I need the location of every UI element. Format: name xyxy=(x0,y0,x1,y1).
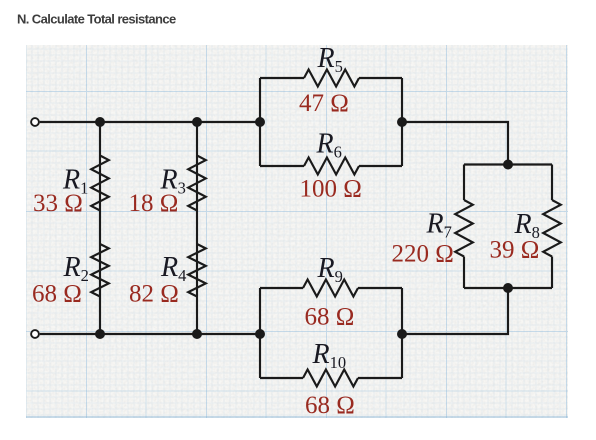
svg-text:82 Ω: 82 Ω xyxy=(129,281,179,308)
wire: bottom rail xyxy=(40,333,260,335)
resistor R8 xyxy=(543,200,561,257)
wire: R10 leads xyxy=(260,377,402,379)
junction dot 4 at (402,122) xyxy=(397,117,407,127)
svg-text:47 Ω: 47 Ω xyxy=(299,90,349,117)
junction dot 5 at (508,164.5) xyxy=(503,160,513,170)
wire: R8 leads xyxy=(551,165,553,289)
junction dot 10 at (402,334) xyxy=(397,329,407,339)
wire: R9/R10 box right vertical xyxy=(401,288,403,378)
resistor R2 xyxy=(91,244,109,297)
resistor R4 xyxy=(188,244,206,297)
resistor R6 xyxy=(304,158,359,175)
junction dot 8 at (197,334) xyxy=(192,329,202,339)
svg-text:18 Ω: 18 Ω xyxy=(129,190,179,217)
terminal: top-left input xyxy=(31,118,39,126)
resistor R5 xyxy=(304,70,359,87)
junction dot 7 at (100,334) xyxy=(95,329,105,339)
wire: R5 top leads xyxy=(260,77,402,79)
resistor R10 xyxy=(303,370,358,387)
wire: R5/R6 box left vertical xyxy=(259,78,261,166)
junction dot 1 at (100,122) xyxy=(95,117,105,127)
wire: R9/R10 box left vertical xyxy=(259,288,261,378)
svg-text:100 Ω: 100 Ω xyxy=(300,176,362,203)
wire: R7/R8 box to bottom rail xyxy=(402,288,508,334)
wire: R7/R8 box top xyxy=(464,163,552,165)
junction dot 9 at (260,334) xyxy=(255,329,265,339)
wire: R7 leads xyxy=(463,165,465,289)
resistor R9 xyxy=(303,280,358,297)
junction dot 3 at (260,122) xyxy=(255,117,265,127)
terminal: bottom-left input xyxy=(31,330,39,338)
svg-text:N. Calculate Total resistance: N. Calculate Total resistance xyxy=(17,12,176,27)
resistor R1 xyxy=(91,156,109,211)
paper grid background xyxy=(26,45,568,418)
svg-text:68 Ω: 68 Ω xyxy=(305,304,355,331)
wire: top rail to R7/R8 box xyxy=(402,122,508,165)
wire: R6 bottom leads xyxy=(260,165,402,167)
wire: R7/R8 box bottom xyxy=(464,287,552,289)
junction dot 2 at (197,122) xyxy=(192,117,202,127)
wire: top rail xyxy=(40,121,260,123)
wire: branch R3/R4 vertical xyxy=(196,122,198,334)
svg-text:39 Ω: 39 Ω xyxy=(490,237,540,264)
svg-text:68 Ω: 68 Ω xyxy=(305,392,355,419)
svg-text:220 Ω: 220 Ω xyxy=(392,241,454,268)
wire: R9 leads xyxy=(260,287,402,289)
svg-text:33 Ω: 33 Ω xyxy=(33,190,83,217)
resistor R7 xyxy=(455,200,473,257)
resistor R3 xyxy=(188,156,206,211)
svg-text:68 Ω: 68 Ω xyxy=(32,281,82,308)
wire: branch R1/R2 vertical xyxy=(99,122,101,334)
junction dot 6 at (508,288) xyxy=(503,283,513,293)
wire: R5/R6 box right vertical xyxy=(401,78,403,166)
